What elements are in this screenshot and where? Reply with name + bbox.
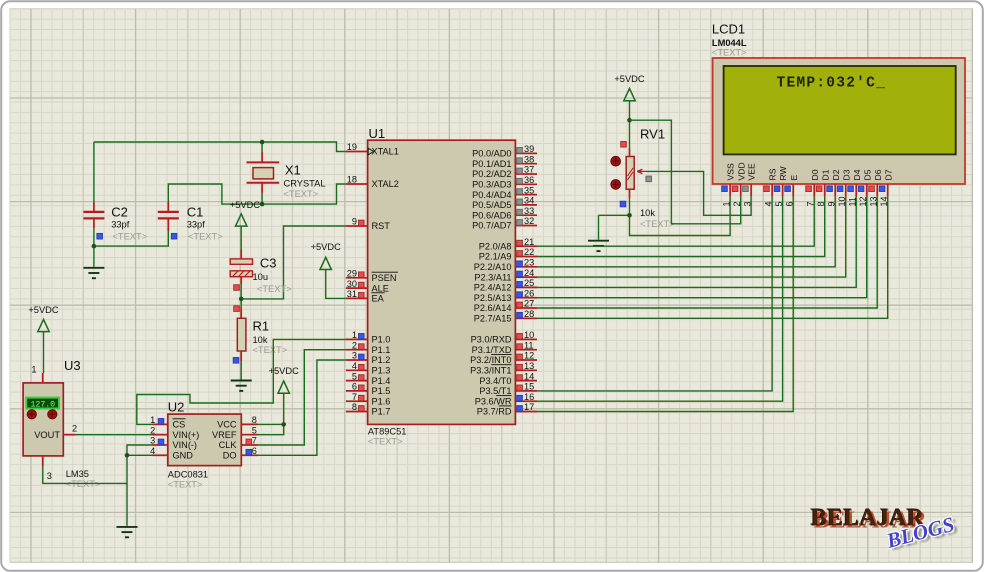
svg-text:P0.1/AD1: P0.1/AD1 (472, 159, 511, 169)
svg-text:18: 18 (347, 175, 357, 185)
svg-text:P2.6/A14: P2.6/A14 (474, 303, 512, 313)
node C3/RST junction (239, 297, 244, 302)
svg-text:VIN(-): VIN(-) (173, 440, 198, 450)
svg-text:+5VDC: +5VDC (311, 242, 342, 252)
wire C2-C1 ground net (94, 228, 168, 267)
svg-text:C1: C1 (187, 205, 204, 220)
svg-text:RW: RW (778, 165, 788, 180)
capacitor C3 (230, 250, 291, 294)
svg-text:32: 32 (524, 216, 534, 226)
svg-text:D7: D7 (883, 169, 893, 180)
svg-text:P2.4/A12: P2.4/A12 (474, 283, 512, 293)
svg-text:D2: D2 (831, 169, 841, 180)
node RV1 top junction (627, 118, 632, 123)
svg-text:P1.4: P1.4 (372, 376, 391, 386)
svg-text:RV1: RV1 (640, 127, 665, 142)
svg-text:P3.6/WR: P3.6/WR (475, 396, 512, 406)
svg-text:33pf: 33pf (187, 220, 206, 230)
svg-text:C3: C3 (260, 256, 277, 271)
ground below U2 (117, 527, 138, 537)
svg-text:VDD: VDD (736, 162, 746, 180)
wire +5V to LCD VDD (630, 120, 741, 224)
node U2 GND junction (125, 453, 130, 458)
svg-text:D0: D0 (810, 169, 820, 180)
op-amp U1 microcontroller AT89C51 (346, 126, 537, 447)
svg-text:PSEN: PSEN (372, 273, 397, 283)
svg-text:33pf: 33pf (111, 220, 130, 230)
svg-text:+5VDC: +5VDC (614, 74, 645, 84)
capacitor C1 (158, 202, 223, 242)
svg-text:+5VDC: +5VDC (269, 366, 300, 376)
svg-text:U1: U1 (369, 126, 386, 141)
wire LM35 pin3 to ground rail (43, 466, 127, 483)
svg-text:3: 3 (352, 351, 357, 361)
ground below C2 (83, 268, 104, 278)
svg-text:U3: U3 (64, 358, 81, 373)
svg-text:1: 1 (150, 415, 155, 425)
svg-text:3: 3 (150, 436, 155, 446)
wire P2.0-P2.7 to LCD D0-D7 (537, 197, 888, 319)
power +5VDC above RV1 (614, 74, 645, 148)
svg-text:23: 23 (524, 258, 534, 268)
svg-text:P0.2/AD2: P0.2/AD2 (472, 169, 511, 179)
svg-text:127.0: 127.0 (31, 401, 56, 410)
svg-text:P3.3/INT1: P3.3/INT1 (470, 366, 511, 376)
svg-text:D5: D5 (862, 169, 872, 180)
svg-text:10k: 10k (253, 335, 268, 345)
svg-text:5: 5 (252, 425, 257, 435)
svg-text:17: 17 (524, 402, 534, 412)
svg-text:+5VDC: +5VDC (230, 200, 261, 210)
svg-text:R1: R1 (253, 319, 270, 334)
power +5VDC above U3 (28, 305, 59, 373)
svg-text:<TEXT>: <TEXT> (640, 219, 675, 229)
svg-text:ALE: ALE (372, 283, 389, 293)
svg-text:EA: EA (372, 294, 385, 304)
node crystal-top junction (260, 140, 265, 145)
wire R1 to ground (240, 361, 242, 380)
svg-text:P0.6/AD6: P0.6/AD6 (472, 210, 511, 220)
svg-text:P0.3/AD3: P0.3/AD3 (472, 180, 511, 190)
svg-text:10u: 10u (253, 272, 269, 282)
svg-text:VSS: VSS (726, 163, 736, 180)
svg-text:8: 8 (252, 415, 257, 425)
svg-text:RS: RS (768, 168, 778, 180)
svg-text:DO: DO (223, 451, 237, 461)
svg-text:<TEXT>: <TEXT> (368, 437, 403, 447)
svg-text:P1.5: P1.5 (372, 386, 391, 396)
svg-text:D6: D6 (873, 169, 883, 180)
resistor R1 (233, 306, 287, 363)
svg-text:21: 21 (524, 237, 534, 247)
wire XTAL1 net (94, 142, 346, 202)
svg-text:D1: D1 (820, 169, 830, 180)
svg-text:13: 13 (524, 361, 534, 371)
svg-text:XTAL1: XTAL1 (372, 147, 399, 157)
node RV1 bottom junction (627, 213, 632, 218)
svg-text:12: 12 (524, 351, 534, 361)
wire RST net (241, 226, 346, 299)
svg-text:P2.3/A11: P2.3/A11 (474, 272, 511, 282)
svg-text:E: E (789, 175, 799, 181)
capacitor C2 (83, 202, 147, 242)
ground below RV1 (588, 241, 609, 251)
svg-text:D4: D4 (852, 169, 862, 180)
svg-text:2: 2 (352, 340, 357, 350)
svg-text:P1.2: P1.2 (372, 355, 391, 365)
svg-text:15: 15 (524, 382, 534, 392)
svg-text:24: 24 (524, 268, 534, 278)
svg-text:<TEXT>: <TEXT> (188, 232, 223, 242)
svg-text:16: 16 (524, 392, 534, 402)
svg-text:26: 26 (524, 288, 534, 298)
svg-text:36: 36 (524, 175, 534, 185)
svg-text:7: 7 (252, 436, 257, 446)
svg-text:P2.7/A15: P2.7/A15 (474, 314, 512, 324)
power +5VDC above C3 (230, 200, 261, 250)
svg-text:30: 30 (347, 279, 357, 289)
svg-text:11: 11 (524, 340, 534, 350)
svg-text:P3.2/INT0: P3.2/INT0 (470, 355, 511, 365)
op-amp LCD1 display LM044L (712, 22, 965, 207)
svg-text:7: 7 (352, 392, 357, 402)
svg-text:1: 1 (352, 330, 357, 340)
node crystal-bottom junction (260, 202, 265, 207)
svg-text:4: 4 (352, 361, 357, 371)
svg-text:P0.0/AD0: P0.0/AD0 (472, 149, 511, 159)
svg-text:<TEXT>: <TEXT> (257, 284, 292, 294)
svg-text:P1.3: P1.3 (372, 366, 391, 376)
svg-text:LM044L: LM044L (712, 38, 747, 48)
wire C3-R1 net (240, 284, 242, 308)
svg-text:<TEXT>: <TEXT> (284, 189, 319, 199)
svg-text:VREF: VREF (212, 430, 237, 440)
svg-text:P2.2/A10: P2.2/A10 (474, 262, 512, 272)
svg-text:37: 37 (524, 165, 534, 175)
svg-text:14: 14 (524, 371, 534, 381)
wire U2-CLK to P1.1 (258, 350, 346, 445)
svg-text:AT89C51: AT89C51 (368, 427, 407, 437)
crystal X1 (247, 152, 326, 199)
svg-text:<TEXT>: <TEXT> (253, 345, 288, 355)
svg-text:P3.1/TXD: P3.1/TXD (472, 345, 512, 355)
svg-text:4: 4 (150, 446, 155, 456)
svg-text:35: 35 (524, 185, 534, 195)
svg-text:X1: X1 (285, 163, 301, 178)
wire P3.5/P3.6/P3.7 to LCD RS/RW/E (537, 197, 793, 412)
svg-text:P1.1: P1.1 (372, 345, 391, 355)
svg-text:19: 19 (347, 142, 357, 152)
svg-text:<TEXT>: <TEXT> (113, 232, 148, 242)
svg-text:P3.4/T0: P3.4/T0 (479, 376, 511, 386)
svg-text:XTAL2: XTAL2 (372, 179, 399, 189)
svg-text:P1.0: P1.0 (372, 335, 391, 345)
wire VOUT to U2-VIN+ (75, 434, 153, 436)
node C2 ground junction (92, 244, 97, 249)
svg-text:28: 28 (524, 309, 534, 319)
wire U2-CS to P1.0 (137, 339, 346, 424)
svg-text:10k: 10k (640, 208, 655, 218)
svg-text:RST: RST (372, 221, 391, 231)
svg-text:CS: CS (173, 420, 186, 430)
node U2 VCC junction (281, 422, 286, 427)
svg-text:P1.7: P1.7 (372, 407, 391, 417)
wire RV1 bottom to LCD VSS (630, 197, 731, 236)
svg-text:1: 1 (31, 365, 36, 375)
wire +5V to VCC/VREF (258, 424, 284, 434)
svg-text:31: 31 (347, 289, 357, 299)
svg-text:P3.0/RXD: P3.0/RXD (471, 335, 512, 345)
svg-text:LM35: LM35 (66, 469, 89, 479)
svg-text:ADC0831: ADC0831 (168, 470, 208, 480)
svg-text:9: 9 (352, 217, 357, 227)
wire RV1 bottom to ground (599, 215, 630, 239)
svg-text:P2.5/A13: P2.5/A13 (474, 293, 512, 303)
svg-text:25: 25 (524, 278, 534, 288)
svg-text:38: 38 (524, 154, 534, 164)
svg-text:2: 2 (150, 425, 155, 435)
svg-text:3: 3 (47, 471, 52, 481)
svg-text:P0.7/AD7: P0.7/AD7 (472, 221, 511, 231)
wire U2-DO to P1.2 (258, 360, 346, 455)
wire XTAL2 net (168, 184, 346, 204)
op-amp U2 ADC converter ADC0831 (150, 400, 257, 490)
svg-text:<TEXT>: <TEXT> (168, 480, 203, 490)
svg-text:6: 6 (352, 382, 357, 392)
svg-text:GND: GND (173, 451, 194, 461)
resistor RV1 potentiometer (611, 127, 675, 230)
svg-text:8: 8 (352, 402, 357, 412)
svg-text:CLK: CLK (219, 440, 238, 450)
svg-text:<TEXT>: <TEXT> (712, 48, 747, 58)
svg-text:P0.5/AD5: P0.5/AD5 (472, 200, 511, 210)
svg-text:22: 22 (524, 247, 534, 257)
svg-text:LCD1: LCD1 (712, 22, 745, 37)
wire U2 VIN-/GND to ground rail (127, 445, 153, 526)
svg-text:P3.7/RD: P3.7/RD (477, 407, 512, 417)
svg-text:P2.0/A8: P2.0/A8 (479, 241, 512, 251)
svg-text:P0.4/AD4: P0.4/AD4 (472, 190, 511, 200)
svg-text:6: 6 (252, 446, 257, 456)
svg-text:VOUT: VOUT (34, 430, 60, 440)
svg-text:U2: U2 (168, 400, 185, 415)
svg-text:P1.6: P1.6 (372, 396, 391, 406)
svg-text:5: 5 (352, 371, 357, 381)
svg-text:33: 33 (524, 206, 534, 216)
svg-text:2: 2 (72, 424, 77, 434)
svg-text:C2: C2 (111, 205, 128, 220)
svg-text:D3: D3 (841, 169, 851, 180)
svg-text:TEMP:032'C_: TEMP:032'C_ (777, 76, 887, 92)
wire RV1 wiper to LCD VEE (647, 171, 751, 215)
svg-text:VEE: VEE (747, 163, 757, 180)
svg-text:+5VDC: +5VDC (28, 305, 59, 315)
svg-text:P3.5/T1: P3.5/T1 (479, 386, 511, 396)
ground below R1 (231, 381, 252, 391)
power +5VDC at EA pin (311, 242, 346, 298)
svg-text:34: 34 (524, 196, 534, 206)
svg-text:29: 29 (347, 269, 357, 279)
svg-text:P2.1/A9: P2.1/A9 (479, 252, 512, 262)
svg-text:CRYSTAL: CRYSTAL (284, 179, 326, 189)
svg-text:10: 10 (524, 330, 534, 340)
power +5VDC above U2-VCC (269, 366, 300, 424)
svg-text:27: 27 (524, 299, 534, 309)
svg-text:VCC: VCC (217, 420, 237, 430)
svg-text:39: 39 (524, 144, 534, 154)
watermark BELAJAR BLOGS (811, 506, 957, 554)
svg-text:VIN(+): VIN(+) (173, 430, 200, 440)
transistor U3 temperature sensor LM35 (23, 358, 100, 489)
